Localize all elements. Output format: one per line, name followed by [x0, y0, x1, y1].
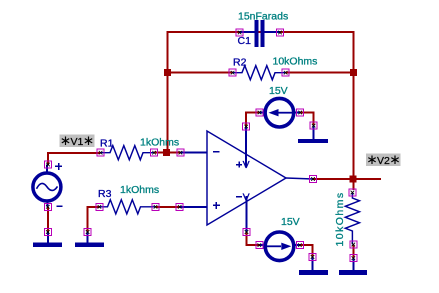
svg-text:V2: V2 — [377, 155, 390, 167]
svg-text:R3: R3 — [98, 188, 112, 200]
svg-text:V: V — [243, 191, 250, 203]
svg-text:R1: R1 — [100, 138, 114, 150]
svg-text:10kOhms: 10kOhms — [334, 191, 346, 246]
svg-text:V: V — [243, 159, 250, 171]
svg-text:V1: V1 — [71, 136, 84, 148]
svg-text:1kOhms: 1kOhms — [120, 184, 159, 196]
svg-text:15V: 15V — [281, 216, 300, 228]
svg-text:15V: 15V — [269, 85, 288, 97]
svg-text:15nFarads: 15nFarads — [238, 11, 288, 23]
svg-text:R2: R2 — [233, 56, 247, 68]
svg-text:C1: C1 — [238, 35, 252, 47]
svg-text:10kOhms: 10kOhms — [273, 56, 318, 68]
svg-text:1kOhms: 1kOhms — [140, 136, 179, 148]
